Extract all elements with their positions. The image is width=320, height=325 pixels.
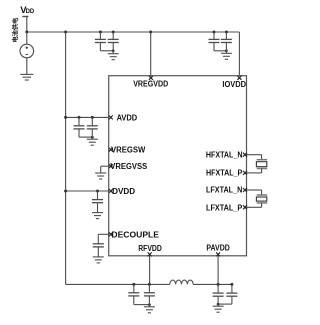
ground C3/C4: [221, 52, 232, 54]
wire joining C1/C2 cap bottoms: [99, 43, 101, 51]
capacitor C5/C6 left: [78, 117, 80, 125]
pin DECOUPLE: [109, 232, 113, 236]
wire AVDD to left rail: [66, 116, 109, 118]
pin RFVDD: [148, 252, 152, 256]
wire left vertical rail: [65, 32, 67, 284]
svg-text:DECOUPLE: DECOUPLE: [111, 230, 159, 239]
IC U1 body: [109, 76, 247, 256]
pin PAVDD: [216, 252, 220, 256]
pin VREGVSS: [109, 164, 113, 168]
wire PAVDD branch: [217, 256, 219, 285]
inductor L1: [170, 280, 193, 284]
capacitor C11/C12 right: [231, 284, 233, 293]
pin IOVDD: [237, 76, 241, 80]
svg-text:RFVDD: RFVDD: [138, 244, 162, 253]
svg-text:VREGSW: VREGSW: [111, 146, 146, 155]
capacitor C3/C4 right: [225, 32, 227, 39]
junction DVDD left rail: [64, 190, 67, 193]
ground C7 at DVDD: [92, 212, 103, 214]
wire source to ground: [26, 58, 28, 75]
svg-text:IOVDD: IOVDD: [222, 80, 246, 89]
crystal Y1 HFXTAL: [257, 159, 268, 161]
capacitor C1/C2 right: [112, 32, 114, 39]
junction dot C9/C10 left: [132, 283, 135, 286]
ground C5/C6: [87, 138, 98, 140]
junction dot C5/C6 left: [78, 116, 81, 119]
ground C11/C12: [213, 305, 224, 307]
ground C1/C2: [108, 53, 119, 55]
svg-text:DVDD: DVDD: [112, 187, 135, 196]
junction VREGVDD branch: [149, 31, 152, 34]
wire joining C5/C6 cap bottoms: [78, 129, 80, 137]
wire joining C3/C4 cap bottoms: [213, 43, 215, 51]
junction dot C1/C2 left: [99, 31, 102, 34]
wire VREGVDD branch: [150, 32, 152, 76]
wire Y1 HFXTAL N pin to crystal top: [247, 154, 262, 156]
wire bottom rail left segment: [66, 283, 170, 285]
capacitor C9/C10 left: [133, 284, 135, 292]
svg-text:LFXTAL_N: LFXTAL_N: [206, 186, 242, 195]
ground below source: [20, 73, 33, 75]
wire bottom rail right segment: [193, 283, 232, 285]
pin VREGVDD: [149, 76, 153, 80]
pin VREGSW: [109, 148, 113, 152]
wire Y1 HFXTAL crystal bottom to P pin: [261, 169, 263, 173]
pin DVDD: [109, 189, 113, 193]
svg-text:电池供电: 电池供电: [12, 17, 20, 43]
junction dot C9/C10 right: [148, 283, 151, 286]
wire joining C9/C10 cap bottoms: [133, 296, 135, 305]
junction VDD source: [25, 31, 28, 34]
junction DVDD cap: [96, 190, 99, 193]
pin HFXTAL_P: [243, 171, 247, 175]
wire Y2 LFXTAL N pin to crystal top: [247, 189, 262, 191]
wire joining C11/C12 cap bottoms: [231, 296, 233, 304]
pin AVDD: [109, 115, 113, 119]
ground VREGVSS: [95, 172, 106, 174]
capacitor C8 at DECOUPLE: [97, 235, 99, 244]
capacitor C5/C6 right: [91, 117, 93, 125]
junction dot C3/C4 right: [225, 31, 228, 34]
svg-text:LFXTAL_P: LFXTAL_P: [206, 203, 243, 212]
svg-text:HFXTAL_P: HFXTAL_P: [206, 168, 243, 177]
svg-text:DD: DD: [26, 9, 35, 15]
capacitor C9/C10 right: [148, 284, 150, 292]
svg-text:VREGVSS: VREGVSS: [110, 162, 148, 171]
svg-text:PAVDD: PAVDD: [206, 244, 230, 253]
wire Y2 LFXTAL crystal bottom to P pin: [261, 203, 263, 207]
node VDD top rail wire: [27, 31, 240, 33]
junction dot C11/C12 right: [230, 283, 233, 286]
pin LFXTAL_N: [243, 188, 247, 192]
wire VREGVSS to ground: [101, 165, 109, 167]
capacitor C3/C4 left: [213, 32, 215, 39]
wire IOVDD branch: [238, 32, 240, 76]
wire DVDD to left rail: [66, 190, 109, 192]
pin HFXTAL_N: [243, 153, 247, 157]
junction dot C3/C4 left: [213, 31, 216, 34]
junction AVDD left rail: [64, 116, 67, 119]
ground C8 at DECOUPLE: [93, 256, 104, 258]
svg-text:HFXTAL_N: HFXTAL_N: [206, 151, 243, 160]
voltage source V1 battery: [20, 32, 34, 58]
capacitor C7 at DVDD: [97, 191, 99, 200]
capacitor C1/C2 left: [99, 32, 101, 39]
junction left rail top: [64, 31, 67, 34]
ground C9/C10: [144, 306, 155, 308]
svg-text:VREGVDD: VREGVDD: [133, 80, 168, 89]
pin LFXTAL_P: [243, 205, 247, 209]
wire RFVDD branch: [149, 256, 151, 285]
junction dot C11/C12 left: [217, 283, 220, 286]
svg-text:AVDD: AVDD: [117, 113, 138, 122]
crystal Y2 LFXTAL: [257, 194, 268, 196]
wire DECOUPLE: [98, 233, 108, 235]
junction dot C1/C2 right: [112, 31, 115, 34]
capacitor C11/C12 left: [217, 284, 219, 293]
junction dot C5/C6 right: [91, 116, 94, 119]
power symbol VDD: [20, 5, 35, 32]
